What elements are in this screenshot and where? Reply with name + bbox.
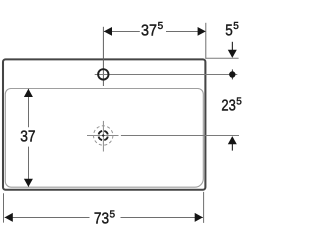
ext line bottom left (73.5 dim) [3, 193, 5, 222]
arrow 37 up [24, 89, 33, 97]
tap hole vertical centerline (ext line for 37.5 dim) [102, 27, 104, 86]
svg-text:5: 5 [236, 96, 242, 107]
drain centerline extension right [121, 135, 239, 137]
svg-text:5: 5 [225, 22, 233, 39]
ext line right edge up (37.5 dim) [205, 23, 207, 59]
arrow 37 down [24, 179, 33, 187]
washbasin outer outline [3, 59, 205, 189]
dim line 73.5 left segment [5, 217, 90, 219]
arrow 5.5 down [231, 42, 233, 51]
dot marker at tap centerline (shared ref for 5.5/23.5) [231, 69, 233, 79]
arrow 37.5 left [104, 27, 112, 36]
tap hole circle [98, 69, 108, 79]
drain crosshair vertical line [102, 121, 104, 152]
dim line 37 vertical bottom segment [28, 147, 30, 187]
drain center diamond [102, 134, 105, 137]
svg-text:5: 5 [233, 21, 239, 32]
svg-text:73: 73 [94, 211, 109, 228]
ext line bottom right (73.5 dim) [203, 192, 205, 223]
drain inner circle arcs [99, 131, 108, 140]
dim line 37 vertical top segment [28, 89, 30, 128]
drain outer dashed circle [94, 126, 113, 145]
svg-text:37: 37 [141, 22, 157, 39]
dim line 37.5 right segment [166, 31, 206, 33]
svg-text:5: 5 [110, 209, 116, 220]
top edge extension line (5.5 ref) [206, 57, 239, 59]
dim line 73.5 right segment [121, 217, 203, 219]
dim line 37.5 left segment [104, 31, 140, 33]
arrow 23.5 up [231, 144, 233, 151]
svg-text:5: 5 [158, 21, 164, 32]
svg-text:23: 23 [221, 98, 235, 115]
arrow 73.5 left [5, 213, 13, 222]
drain crosshair horizontal line [87, 135, 119, 137]
arrow 37.5 right [198, 27, 206, 36]
tap hole horizontal centerline [95, 74, 238, 76]
svg-text:37: 37 [20, 129, 35, 146]
washbasin bowl inner outline [5, 89, 203, 188]
arrow 73.5 right [195, 213, 203, 222]
